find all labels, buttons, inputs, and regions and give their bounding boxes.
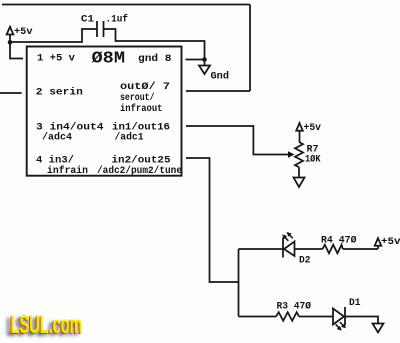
wire C1 to gnd drop [104,29,205,60]
svg-text:serout/: serout/ [120,92,155,104]
wire pin2 serin [0,92,22,94]
svg-text:1ØK: 1ØK [305,154,321,166]
svg-text:3 in4/out4: 3 in4/out4 [36,121,104,133]
node junction dot at +5v top-left [8,40,13,45]
resistor R7 zigzag [295,142,303,167]
LED D2 cathode bar and triangle [283,238,295,258]
wire branch to D2 [239,248,283,250]
wire R4 to +5v [343,248,378,250]
LED D1 triangle and cathode bar [333,307,345,326]
svg-text:in1/out16: in1/out16 [112,121,170,133]
svg-text:Ø8M: Ø8M [92,50,126,69]
logo LSUL.com [7,311,83,341]
resistor R4 zigzag [323,245,343,254]
svg-text:R3 47Ø: R3 47Ø [277,300,312,312]
svg-text:infrain: infrain [47,165,88,177]
wire pin1 +5v [10,42,23,59]
svg-text:/adc4: /adc4 [42,132,72,144]
wire R7 to ground [298,167,300,177]
resistor R3 zigzag [276,312,299,321]
svg-text:+5v: +5v [304,123,322,134]
svg-text:.1uf: .1uf [106,13,129,25]
svg-text:+5v: +5v [381,237,400,248]
wire top rail [2,4,250,6]
svg-text:gnd 8: gnd 8 [138,53,172,65]
svg-text:2 serin: 2 serin [36,87,83,99]
svg-text:Gnd: Gnd [211,71,230,83]
svg-text:/adc2/pum2/tune: /adc2/pum2/tune [97,165,182,177]
svg-text:outØ/ 7: outØ/ 7 [120,81,170,93]
svg-text:D2: D2 [299,256,311,267]
wire pin7 out0/serout/infraout [186,90,250,92]
wire R3 to D1 [299,316,333,318]
wire branch to R3 [239,316,277,318]
R7 wiper arrowhead [288,151,295,157]
IC U1 08M body [27,47,182,176]
+5v supply arrow top-left [7,27,14,42]
wire D2 to R4 [295,248,323,250]
wire pin4 feed [186,158,239,282]
wire LED branch vertical [238,249,240,317]
ground symbol Gnd stem and triangle [199,60,210,75]
wire D1 to ground [345,317,378,324]
svg-text:C1: C1 [81,14,94,25]
svg-text:D1: D1 [349,298,361,309]
svg-text:R4 47Ø: R4 47Ø [321,235,357,247]
D2 light arrows [284,234,292,241]
svg-text:LSUL.com: LSUL.com [11,311,83,339]
wire pin3 in1/out16 to R7 wiper [186,126,289,155]
capacitor C1 plates [97,21,104,37]
wire pin8 gnd [186,59,205,61]
svg-text:1 +5 v: 1 +5 v [37,54,75,65]
ground symbol right of D1 [373,324,384,333]
wire right drop from top rail [249,5,251,92]
+5v supply arrow at R7 [296,123,303,142]
svg-text:in2/out25: in2/out25 [112,155,171,167]
wire +5v node to C1 [10,29,97,42]
svg-text:4 in3/: 4 in3/ [36,155,74,167]
+5v supply arrow right of R4 [375,238,382,249]
ground symbol below R7 [294,178,305,188]
node junction dot at gnd pin8 [202,57,207,62]
svg-text:+5v: +5v [14,27,33,38]
svg-text:/adc1: /adc1 [115,132,144,144]
svg-text:infraout: infraout [120,103,163,115]
D1 light arrows [336,322,344,328]
